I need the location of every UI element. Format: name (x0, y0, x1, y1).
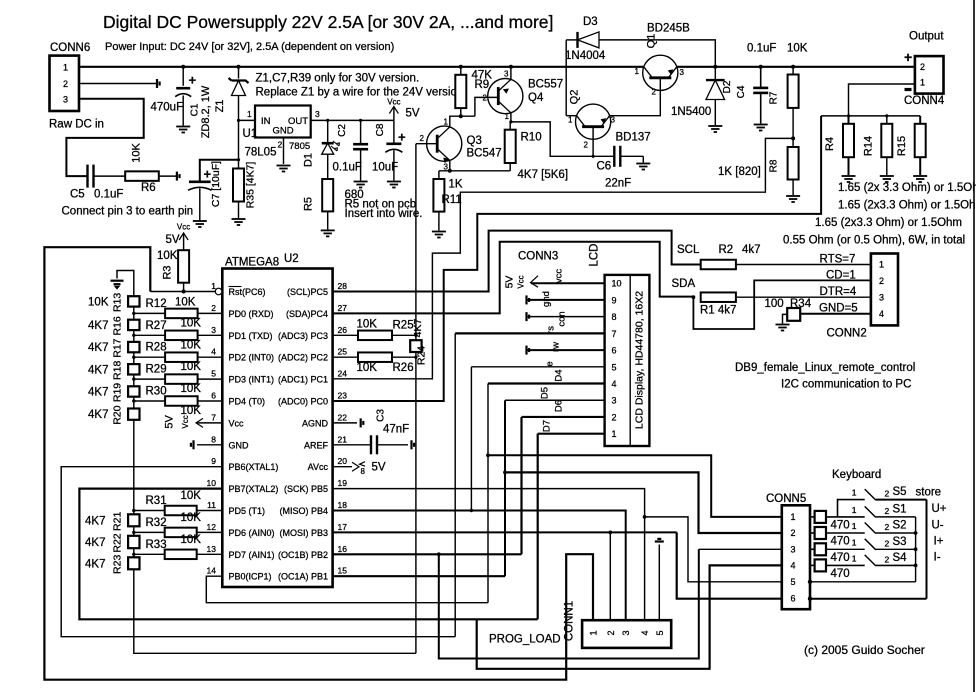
svg-text:4K7: 4K7 (88, 320, 108, 332)
wire R26 to R24 bottom column (392, 356, 416, 358)
wire D3 cathode link down to Q2 base (565, 40, 567, 116)
svg-text:BC557: BC557 (528, 79, 563, 91)
switch S5 lever (865, 489, 876, 500)
svg-text:(ADC1) PC1: (ADC1) PC1 (278, 375, 328, 385)
wire MOSI down to CONN5 pin6 (677, 532, 782, 598)
connector CONN1 (582, 620, 671, 648)
svg-text:AGND: AGND (302, 418, 329, 428)
wire CONN5 pin3 wire (699, 548, 782, 550)
wire ladder tap to R28 (134, 356, 165, 358)
resistor R29 (165, 374, 198, 384)
svg-text:AREF: AREF (304, 440, 329, 450)
svg-text:R2: R2 (719, 244, 734, 256)
svg-text:R16: R16 (112, 316, 124, 335)
wire CONN6 pin3 to C5 (66, 99, 143, 176)
svg-text:2: 2 (63, 79, 68, 89)
svg-text:10K: 10K (88, 296, 109, 308)
wire R9 bottom stem (460, 108, 462, 116)
wire CONN5 pin4 to 470 resistor (810, 564, 815, 566)
svg-text:DTR=4: DTR=4 (820, 286, 857, 298)
svg-text:S4: S4 (893, 552, 908, 564)
connector CONN2 (871, 254, 898, 326)
svg-text:10K: 10K (181, 405, 202, 417)
svg-text:1: 1 (247, 109, 252, 119)
wire pin9 loop to LCD rs column (61, 467, 455, 637)
LCD box divider (629, 275, 631, 446)
wire R5 to ground (327, 211, 329, 229)
svg-text:R25: R25 (393, 319, 414, 331)
svg-text:2: 2 (278, 140, 283, 150)
svg-text:Digital DC Powersupply 22V 2.5: Digital DC Powersupply 22V 2.5A [or 30V … (103, 12, 553, 32)
diode D3 1N4004 (578, 32, 600, 48)
svg-text:C3: C3 (376, 409, 387, 422)
5V Vcc arrow on U1 output (393, 107, 395, 121)
svg-text:12: 12 (207, 522, 217, 532)
svg-text:5: 5 (791, 577, 796, 587)
svg-text:Vcc: Vcc (181, 415, 190, 428)
svg-text:(OC1B) PB2: (OC1B) PB2 (278, 550, 328, 560)
svg-text:Power Input: DC 24V [or 32V],: Power Input: DC 24V [or 32V], 2.5A (depe… (105, 41, 394, 53)
wire 470-1 to S1 with branch to S5 (826, 516, 865, 518)
connector CONN6 (50, 56, 80, 111)
ground right of C6 (636, 164, 650, 170)
wire R14 to ground (886, 157, 888, 175)
svg-text:C4: C4 (736, 85, 747, 98)
resistor 470 square 2 (815, 527, 826, 539)
svg-text:4: 4 (640, 630, 650, 635)
svg-text:+: + (904, 49, 912, 65)
svg-text:R27: R27 (146, 320, 167, 332)
svg-text:3: 3 (211, 325, 216, 335)
voltage regulator U1 78L05 box (255, 106, 311, 138)
wire R10 bottom stem (509, 163, 511, 171)
resistor R6 (125, 171, 159, 181)
resistor R4 stem and body (848, 116, 850, 124)
svg-text:U2: U2 (284, 253, 299, 265)
svg-text:R35 [4K7]: R35 [4K7] (245, 162, 257, 209)
capacitor C7 10uF (188, 182, 212, 191)
resistor R1 4k7 (701, 292, 736, 302)
svg-text:PD6 (AIN0): PD6 (AIN0) (229, 528, 275, 538)
ground flag at LCD pin9 (527, 295, 530, 304)
resistor R18 square (128, 364, 139, 374)
svg-text:2: 2 (652, 88, 657, 97)
wire R28 to pin 4 (198, 356, 223, 358)
svg-text:Connect pin 3 to earth pin: Connect pin 3 to earth pin (62, 206, 194, 218)
svg-text:20: 20 (338, 456, 348, 466)
svg-text:26: 26 (338, 325, 348, 335)
wire R31 to pin 11 (197, 510, 223, 512)
svg-text:R19: R19 (112, 383, 124, 402)
svg-text:3: 3 (791, 544, 796, 554)
wire S2 right (876, 532, 916, 534)
wire S5 bus to CONN5 pin6 right side (810, 598, 927, 600)
svg-text:R23: R23 (112, 555, 124, 574)
svg-text:23: 23 (338, 391, 348, 401)
svg-text:4: 4 (879, 309, 884, 319)
ground under R5 (321, 230, 335, 236)
switch S2 lever (865, 523, 876, 534)
svg-text:7: 7 (612, 329, 617, 339)
ground under R4 (842, 176, 856, 182)
svg-text:1: 1 (63, 63, 68, 73)
svg-text:Q1: Q1 (646, 34, 658, 49)
resistor R13 square (128, 296, 139, 306)
svg-text:10K: 10K (181, 534, 202, 546)
svg-text:10uF: 10uF (372, 162, 398, 174)
svg-text:9: 9 (211, 456, 216, 466)
wire R9 top stem (460, 67, 462, 75)
resistor R12 (165, 309, 198, 319)
wire R8 to ground (792, 180, 794, 196)
svg-text:2: 2 (885, 522, 890, 532)
wire voltage sense from R7/R8 junction to ADC1 (333, 138, 793, 378)
diode D2 1N5400 (706, 80, 725, 99)
svg-text:D6: D6 (554, 400, 565, 412)
resistor R15 stem and body (919, 116, 921, 124)
resistor 470 square 3 (815, 543, 826, 555)
svg-text:U-: U- (932, 520, 944, 532)
svg-text:4K7 [5K6]: 4K7 [5K6] (518, 169, 569, 181)
svg-text:0.1uF: 0.1uF (333, 162, 362, 174)
resistor R34 100 square (787, 308, 800, 321)
resistor R35 (233, 169, 244, 202)
svg-text:D4: D4 (554, 369, 565, 381)
resistor R17 square (128, 342, 139, 352)
svg-text:CONN3: CONN3 (518, 251, 558, 263)
svg-text:3: 3 (504, 70, 509, 79)
svg-text:8: 8 (211, 434, 216, 444)
svg-text:PB6(XTAL1): PB6(XTAL1) (229, 462, 279, 472)
svg-text:17: 17 (338, 522, 348, 532)
resistor R21 square (128, 514, 139, 526)
transistor Q3 BC547 (427, 126, 462, 161)
wire PB2 branch down to CONN5 pin3 loop (439, 549, 699, 658)
ground under R11 (432, 232, 446, 238)
svg-text:2: 2 (885, 538, 890, 548)
svg-text:10K: 10K (787, 43, 808, 55)
resistor R19 square (128, 386, 139, 396)
svg-text:2: 2 (885, 506, 890, 516)
wire LCD pin8 contrast (527, 316, 605, 318)
svg-text:4: 4 (612, 379, 617, 389)
ground flag at CONN6 pin2 (157, 79, 160, 88)
svg-text:R22: R22 (112, 533, 124, 552)
wire pin14 loop to LCD D4 column (206, 576, 488, 603)
wire C7 top stem to Z1 node (200, 160, 239, 182)
svg-text:Output: Output (909, 31, 944, 43)
svg-text:(SCL)PC5: (SCL)PC5 (287, 287, 328, 297)
svg-text:1K: 1K (449, 179, 463, 191)
svg-text:4K7: 4K7 (88, 409, 108, 421)
wire ladder2 bottom to R24 column (134, 569, 416, 653)
svg-text:(SCK) PB5: (SCK) PB5 (284, 484, 328, 494)
wire CONN5 pin1 to 470 resistor (810, 516, 815, 518)
wire C1 bottom stem (182, 96, 184, 126)
wire U1 GND stem (283, 138, 285, 165)
svg-text:PD7 (AIN1): PD7 (AIN1) (229, 550, 275, 560)
wire C7 bottom stem (199, 188, 201, 220)
svg-text:4K7: 4K7 (88, 364, 108, 376)
wire D7 column down to D7 bus (537, 434, 539, 620)
capacitor C4 (753, 88, 768, 93)
svg-text:R17: R17 (112, 338, 124, 357)
wire R1 to CONN2 pin3 DTR (736, 296, 871, 298)
wire LCD pin10 vcc with 5V arrow (531, 282, 605, 284)
svg-text:BC547: BC547 (467, 148, 502, 160)
wire C5 to R6 (94, 175, 126, 177)
svg-text:3: 3 (611, 116, 616, 125)
svg-text:U1: U1 (243, 128, 258, 140)
svg-text:U+: U+ (932, 503, 947, 515)
resistor R14 stem and body (886, 116, 888, 124)
svg-text:7805: 7805 (289, 141, 310, 152)
wire branch up to S5 (838, 500, 865, 517)
svg-text:CD=1: CD=1 (826, 270, 856, 282)
wire pin18 MISO line to CONN1 pin3 (333, 511, 626, 621)
wire pin17 MOSI line (333, 531, 677, 533)
wire C2 stem (360, 120, 362, 144)
svg-text:22nF: 22nF (605, 178, 631, 190)
svg-text:2: 2 (211, 303, 216, 313)
wire R2 to CONN2 pin1 RTS (736, 264, 871, 266)
minus sign at CONN4 (905, 88, 912, 91)
svg-text:1.65 (2x3.3 Ohm) or 1.5Ohm: 1.65 (2x3.3 Ohm) or 1.5Ohm (838, 200, 976, 212)
resistor R23 square (128, 557, 139, 569)
LED D1 (322, 142, 334, 145)
wire rs column down (454, 333, 456, 636)
svg-text:1: 1 (791, 512, 796, 522)
svg-text:SDA: SDA (672, 278, 696, 290)
svg-text:R5: R5 (303, 197, 315, 211)
wire R10 bottom rail to R11/Q3 (439, 170, 510, 172)
wire common bus to CONN5 pin5 right side (810, 581, 916, 583)
ground under R8 (786, 196, 800, 202)
wire AGND pin22 stub (333, 422, 357, 424)
svg-text:Raw DC in: Raw DC in (49, 119, 104, 131)
svg-text:R3: R3 (162, 265, 174, 279)
wire CONN5 pin3 to 470 resistor (810, 548, 815, 550)
svg-text:27: 27 (338, 303, 348, 313)
svg-text:13: 13 (207, 544, 217, 554)
wire C4 to ground (760, 93, 762, 124)
svg-text:S3: S3 (893, 536, 907, 548)
svg-text:5V: 5V (372, 462, 386, 474)
wire Q3 collector to R9 junction (450, 116, 475, 127)
svg-text:C2: C2 (337, 124, 348, 137)
wire Q2 emitter stem to C6 line (592, 127, 594, 157)
svg-text:5V: 5V (166, 234, 180, 246)
svg-text:Insert into wire.: Insert into wire. (345, 208, 423, 220)
IC U2 ATMEGA8 box (222, 269, 332, 588)
wire R25 to R24 top and rs line (392, 334, 416, 336)
wire R6 to gnd flag (159, 175, 177, 177)
svg-text:D3: D3 (583, 16, 598, 28)
svg-text:470: 470 (831, 536, 850, 548)
wire R33 to pin 13 (197, 553, 223, 555)
wire pin15 OC1A line to D5 (333, 575, 505, 577)
svg-text:R8: R8 (769, 159, 780, 172)
svg-text:1: 1 (635, 67, 640, 76)
svg-text:R15: R15 (896, 136, 908, 156)
wire Q3 emitter stem (449, 161, 451, 171)
svg-text:3: 3 (879, 293, 884, 303)
ground under R15 (913, 176, 927, 182)
svg-text:1: 1 (612, 429, 617, 439)
wire Z1 to U1 IN node (238, 96, 240, 161)
svg-text:R12: R12 (146, 298, 167, 310)
svg-text:+: + (189, 73, 197, 88)
wire current sense bus from shunt to ADC0 (333, 116, 821, 401)
svg-text:LCD Display, HD44780, 16X2: LCD Display, HD44780, 16X2 (634, 291, 646, 429)
wire R3 top stem with 5V arrow (183, 233, 185, 250)
ground under C1 (176, 127, 190, 133)
svg-text:vcc: vcc (554, 269, 565, 284)
ground flag at pin22 (361, 418, 364, 427)
svg-text:18: 18 (338, 500, 348, 510)
wire R11 bottom stem (438, 212, 440, 231)
svg-text:14: 14 (207, 566, 217, 576)
wire D4 column down (487, 384, 489, 603)
svg-text:3: 3 (621, 630, 631, 635)
wire CONN2 pin4 GND to R34 (800, 313, 871, 315)
connector CONN4 (915, 56, 944, 94)
wire ladder segment (133, 352, 135, 364)
svg-text:e: e (545, 361, 556, 366)
wire 470-2 to S2 (826, 532, 865, 534)
wire LCD pin5 e line (471, 366, 604, 368)
wire pin26 to R25 (333, 334, 358, 336)
svg-text:4: 4 (211, 347, 216, 357)
svg-text:6: 6 (791, 594, 796, 604)
ground under R34 (776, 325, 790, 331)
wire S1 right to common bus (876, 516, 916, 518)
wire D5 column down to pin15 line (504, 400, 506, 576)
svg-text:R24: R24 (416, 346, 428, 365)
svg-text:Z1,C7,R39 only for 30V version: Z1,C7,R39 only for 30V version. (256, 73, 420, 85)
wire ladder top to ground (117, 271, 134, 297)
svg-text:Z1: Z1 (214, 100, 226, 113)
wire Q2 collector to Q1 base (610, 83, 661, 116)
wire output rail from Q1 to CONN4 pin2 (678, 66, 915, 68)
svg-text:R18: R18 (112, 361, 124, 380)
wire ladder segment (133, 330, 135, 342)
svg-text:5: 5 (612, 362, 617, 372)
wire pin28 SCL to R2 (333, 231, 701, 292)
resistor R2 4k7 (701, 260, 736, 270)
svg-text:2: 2 (483, 94, 488, 103)
resistor R27 (165, 331, 198, 341)
svg-text:DB9_female_Linux_remote_contro: DB9_female_Linux_remote_control (735, 362, 915, 374)
svg-text:I2C communication to PC: I2C communication to PC (781, 379, 911, 391)
svg-text:C5: C5 (70, 189, 85, 201)
svg-text:5: 5 (655, 630, 665, 635)
svg-text:Q2: Q2 (569, 90, 581, 105)
wire shunt top rail (821, 115, 920, 117)
wire R11 top stem (438, 171, 440, 179)
svg-text:2: 2 (920, 62, 925, 72)
resistor R7 (788, 75, 799, 108)
svg-text:R10: R10 (521, 132, 542, 144)
resistor R5 (322, 179, 333, 211)
wire LCD pin2 D6 line (522, 416, 605, 418)
svg-text:15: 15 (338, 566, 348, 576)
svg-text:R26: R26 (393, 362, 414, 374)
resistor R11 1K (433, 179, 444, 212)
svg-text:11: 11 (207, 500, 216, 510)
resistor R32 (165, 528, 197, 538)
svg-text:0.55 Ohm (or 0.5 Ohm), 6W, in: 0.55 Ohm (or 0.5 Ohm), 6W, in total (783, 235, 965, 247)
svg-text:PB0(ICP1): PB0(ICP1) (229, 572, 272, 582)
transistor Q2 BD137 (576, 104, 611, 139)
svg-text:BD245B: BD245B (647, 23, 690, 35)
wire D4 branch to CONN5 pin1 (488, 455, 782, 517)
svg-text:CONN6: CONN6 (50, 42, 90, 54)
wire Q4 collector stem (510, 113, 512, 122)
svg-text:Vcc: Vcc (177, 223, 190, 232)
svg-text:10: 10 (207, 478, 217, 488)
svg-text:1: 1 (444, 118, 449, 127)
wire SDA node to CONN2 pin2 CD loop (693, 280, 871, 329)
svg-text:D2: D2 (722, 80, 733, 93)
svg-text:D5: D5 (540, 387, 551, 399)
wire CONN5 pin2 to 470 resistor (810, 532, 815, 534)
wire ladder tap to R30 (134, 400, 165, 402)
svg-text:C1: C1 (190, 103, 201, 116)
svg-text:(OC1A) PB1: (OC1A) PB1 (278, 572, 328, 582)
wire ladder1 to ladder2 (133, 420, 135, 515)
wire main input rail from CONN6 pin1 to Q1 (79, 66, 643, 68)
ground flag at LCD pin8 (527, 312, 530, 321)
wire R35 top stem (238, 160, 240, 169)
wire Q4 collector junction to Q2 drive (511, 122, 614, 156)
svg-text:Q4: Q4 (528, 92, 544, 104)
svg-text:Rst(PC6): Rst(PC6) (229, 287, 266, 297)
svg-text:R1 4k7: R1 4k7 (700, 305, 736, 317)
svg-text:I-: I- (934, 552, 941, 564)
svg-text:470: 470 (831, 519, 850, 531)
svg-text:CONN4: CONN4 (904, 95, 945, 107)
svg-text:R34: R34 (790, 298, 812, 310)
capacitor C3 47nF (371, 435, 377, 454)
svg-text:S5: S5 (893, 486, 907, 498)
wire Q2 base from D3 column (566, 115, 577, 117)
svg-text:(SDA)PC4: (SDA)PC4 (286, 309, 328, 319)
wire ladder tap to R27 (134, 334, 165, 336)
svg-text:3: 3 (63, 95, 68, 105)
wire S5 right to its bus (876, 499, 927, 501)
svg-text:1: 1 (505, 112, 510, 121)
svg-text:1: 1 (852, 488, 857, 498)
svg-text:4: 4 (791, 560, 796, 570)
svg-text:Vcc: Vcc (229, 418, 245, 428)
svg-text:1: 1 (852, 505, 857, 515)
svg-text:16: 16 (338, 544, 348, 554)
capacitor C2 (353, 144, 368, 149)
wire R35 bottom stem (238, 202, 240, 219)
wire R34 to ground (783, 314, 788, 323)
svg-text:R11: R11 (442, 194, 462, 206)
svg-text:4K7: 4K7 (85, 537, 105, 549)
svg-text:R6: R6 (141, 182, 156, 194)
svg-text:+: + (398, 130, 406, 145)
svg-text:1N5400: 1N5400 (671, 106, 711, 118)
transistor Q1 BD245B (643, 55, 678, 90)
wire R27 to pin 3 (198, 334, 223, 336)
ground flag above CONN1 pin5 (655, 539, 664, 542)
wire Z1 top stem (238, 67, 240, 79)
svg-text:4k7: 4k7 (742, 244, 761, 256)
